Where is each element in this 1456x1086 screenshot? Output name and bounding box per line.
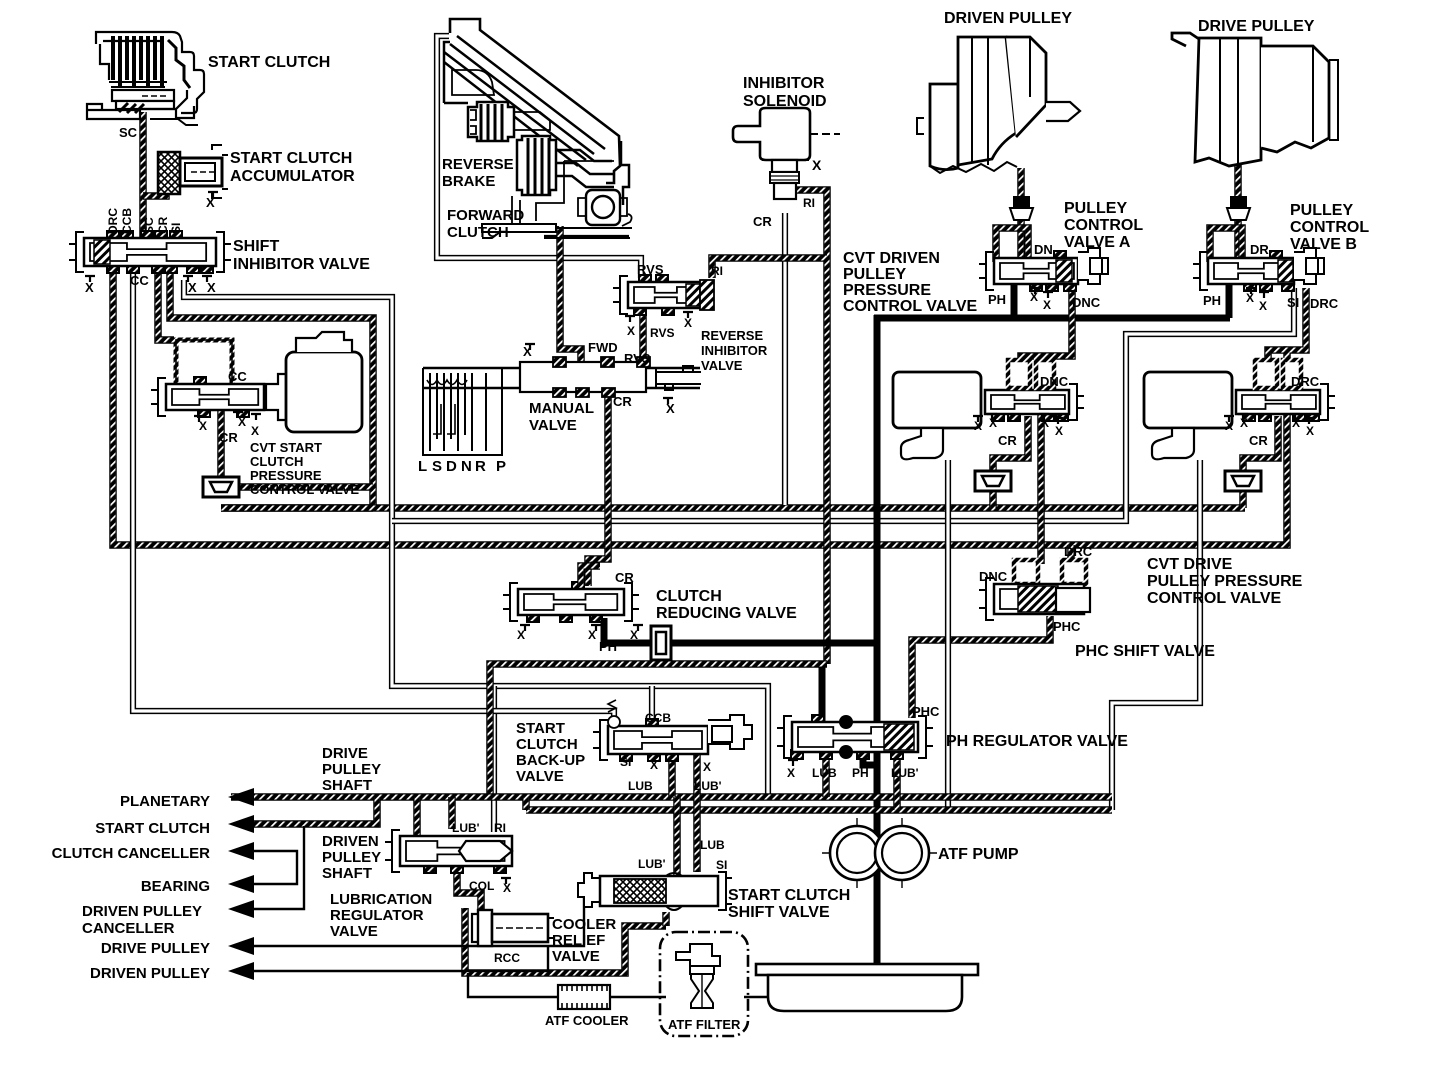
lubrication regulator valve plunger (459, 841, 512, 861)
svg-text:DRC: DRC (1310, 296, 1339, 311)
driven pulley shaft connector (1013, 196, 1030, 208)
start clutch shift valve (578, 872, 732, 910)
arrow DRIVEN PULLEY CANCELLER (228, 900, 254, 918)
svg-text:PHC: PHC (1053, 619, 1081, 634)
svg-text:DNC: DNC (1072, 295, 1101, 310)
wire driven pulley rod (1017, 168, 1025, 258)
pulley control valve B right end (1294, 248, 1324, 284)
drain X (85, 276, 95, 282)
svg-text:CR: CR (753, 214, 772, 229)
svg-text:DRIVEN PULLEY: DRIVEN PULLEY (90, 965, 210, 982)
svg-text:SI: SI (169, 223, 183, 234)
svg-text:X: X (207, 280, 216, 295)
wire PH stub valve A (1011, 284, 1018, 318)
drain X (525, 344, 535, 350)
svg-text:X: X (517, 628, 525, 642)
svg-text:PH: PH (988, 292, 1006, 307)
wire to lubrication regulator (413, 797, 421, 836)
svg-text:PH REGULATOR VALVE: PH REGULATOR VALVE (946, 733, 1128, 750)
arrow BEARING (228, 875, 254, 893)
ATF filter (660, 932, 748, 1036)
CCB port spring (608, 716, 620, 728)
drain X (1053, 418, 1063, 424)
arrow DRIVE PULLEY (228, 937, 254, 955)
svg-text:D: D (446, 458, 457, 475)
svg-text:DNC: DNC (979, 569, 1008, 584)
svg-text:PH: PH (599, 639, 617, 654)
svg-text:RI: RI (711, 264, 723, 278)
svg-text:PH: PH (1203, 293, 1221, 308)
wire LUB2 from back-up valve (693, 754, 701, 810)
svg-text:LUB': LUB' (638, 857, 666, 871)
manual valve (423, 357, 701, 397)
check valve CV3 (driven CR) (975, 471, 1011, 491)
drain X (1290, 414, 1300, 420)
svg-text:X: X (627, 324, 635, 338)
wire PH stub valve B (1226, 284, 1233, 318)
drain X (251, 414, 261, 420)
svg-text:COL: COL (469, 879, 494, 893)
wire start clutch lube (243, 797, 377, 824)
wire COL (457, 872, 481, 912)
wire drive pulley shaft lube trunk (231, 793, 1112, 801)
reverse brake / forward clutch assembly (444, 19, 632, 238)
drain X (987, 414, 997, 420)
CC chamber (176, 340, 232, 386)
PHC shift valve top ports (1014, 560, 1038, 584)
wire SC branch to accumulator (143, 186, 166, 196)
wire RI to lubrication regulator (491, 686, 497, 832)
wire driven pulley line (252, 946, 548, 971)
drain X (683, 312, 693, 318)
wire DNC to PHC shift valve (1037, 358, 1045, 564)
wire drive pulley line (252, 890, 592, 946)
svg-text:RCC: RCC (494, 951, 520, 965)
svg-text:PHC: PHC (912, 704, 940, 719)
svg-text:ATF PUMP: ATF PUMP (938, 846, 1019, 863)
svg-text:DRC: DRC (1291, 374, 1320, 389)
svg-text:X: X (251, 424, 259, 438)
svg-text:RVS: RVS (650, 326, 674, 340)
PH regulator valve (777, 715, 933, 759)
wire CR from CVT start clutch valve (217, 410, 225, 477)
svg-text:N: N (461, 458, 472, 475)
wire FWD (560, 226, 581, 362)
wire lube feed driven valve (945, 460, 951, 810)
svg-text:LUB: LUB (700, 838, 725, 852)
wire PH main horizontal (874, 315, 1230, 322)
drain X (1043, 292, 1053, 298)
drain X (183, 276, 193, 282)
svg-text:X: X (1055, 424, 1063, 438)
svg-text:RI: RI (494, 821, 506, 835)
wire cooler to filter (608, 996, 666, 998)
wire cooler box (465, 908, 666, 973)
svg-text:DNC: DNC (1040, 374, 1069, 389)
PHC shift valve right block (1056, 588, 1090, 612)
wire CR manual to clutch reducing valve (588, 394, 608, 586)
wire LUB2 to lubrication regulator (448, 797, 456, 829)
svg-text:PHC SHIFT VALVE: PHC SHIFT VALVE (1075, 643, 1215, 660)
svg-text:ATF FILTER: ATF FILTER (668, 1017, 741, 1032)
wire RI branch to reverse inhibitor valve (712, 258, 827, 278)
PH regulator valve detail (839, 715, 853, 729)
svg-text:LUB: LUB (628, 779, 653, 793)
shift inhibitor valve (69, 231, 231, 273)
start clutch assembly (87, 32, 204, 125)
drain X (625, 316, 635, 322)
svg-text:DRIVEN PULLEY: DRIVEN PULLEY (944, 10, 1072, 27)
check valve CV4 (drive CR) (1225, 471, 1261, 491)
wire SC start-clutch to shift-inhibitor-valve (139, 112, 147, 240)
arrow PLANETARY (228, 788, 254, 806)
svg-text:RVS: RVS (637, 262, 664, 277)
start clutch back-up valve (593, 719, 708, 761)
wire PHC (912, 616, 1050, 718)
wire CR driven valve (993, 416, 1028, 472)
svg-text:CR: CR (615, 570, 634, 585)
wire CC box top/right (170, 266, 373, 508)
svg-text:LUB': LUB' (694, 779, 722, 793)
svg-text:DN: DN (1034, 242, 1053, 257)
accumulator drain (208, 192, 218, 198)
wire drive pulley rod (1234, 165, 1242, 258)
pulley control valve A (979, 251, 1078, 291)
svg-text:CR: CR (219, 430, 238, 445)
svg-text:LUB: LUB (812, 766, 837, 780)
svg-text:X: X (199, 419, 207, 433)
wire LUB from back-up valve (668, 754, 676, 797)
drain X (520, 625, 530, 631)
wire canceller bracket (252, 851, 297, 884)
svg-text:X: X (812, 157, 822, 173)
svg-text:CC: CC (228, 369, 247, 384)
svg-text:SC: SC (142, 217, 156, 234)
drain X (633, 625, 643, 631)
svg-text:DR: DR (1250, 242, 1269, 257)
drain X (501, 878, 511, 884)
wire LUB2 to shift valve (693, 810, 701, 872)
wire CCB drop (649, 686, 655, 724)
svg-text:SC: SC (119, 125, 138, 140)
svg-text:S: S (432, 458, 442, 475)
wire back-up valve box (490, 664, 827, 797)
svg-text:CCB: CCB (645, 711, 671, 725)
wire PH line (604, 618, 876, 643)
driven pulley (917, 37, 1080, 173)
svg-text:CR: CR (613, 394, 632, 409)
svg-text:DRIVE PULLEY: DRIVE PULLEY (101, 940, 210, 957)
wire CC (158, 266, 174, 340)
svg-text:X: X (206, 195, 215, 210)
CVT start clutch pressure control valve solenoid (266, 332, 362, 432)
svg-text:SI: SI (716, 858, 727, 872)
wire CR from inhibitor solenoid (782, 213, 788, 505)
svg-text:PH: PH (852, 766, 869, 780)
svg-text:X: X (1306, 424, 1314, 438)
ATF cooler (558, 985, 610, 1009)
drain X (1246, 288, 1256, 294)
drain X (233, 412, 243, 418)
svg-text:R: R (475, 458, 486, 475)
arrow START CLUTCH (228, 815, 254, 833)
svg-text:CR: CR (998, 433, 1017, 448)
svg-text:X: X (1043, 298, 1051, 312)
wire SI (392, 288, 1294, 521)
svg-text:FWD: FWD (588, 340, 618, 355)
wire to ATF cooler (468, 973, 560, 997)
svg-text:P: P (496, 458, 506, 475)
arrow DRIVEN PULLEY (228, 962, 254, 980)
wire filter to pan (744, 996, 770, 998)
pulley control valve A right end (1078, 248, 1108, 284)
svg-text:CR: CR (1249, 433, 1268, 448)
wire CR check to trunk (drive) (1239, 488, 1247, 508)
lubrication regulator valve (385, 830, 512, 873)
svg-text:START CLUTCHACCUMULATOR: START CLUTCHACCUMULATOR (230, 150, 355, 185)
wire CR drive valve (1243, 416, 1278, 472)
svg-text:SI: SI (620, 755, 631, 769)
check valve CV1 (CVT start clutch CR) (203, 477, 239, 497)
CCB spring (608, 700, 616, 712)
wire box bottom (221, 504, 373, 512)
svg-text:RVS: RVS (624, 351, 651, 366)
wire DRC branch to valve (1268, 350, 1287, 378)
reverse inhibitor valve RI end (700, 280, 714, 310)
wire valve A feed U (996, 228, 1028, 262)
svg-text:X: X (703, 760, 711, 774)
drain X (1039, 414, 1049, 420)
svg-text:X: X (188, 280, 197, 295)
svg-text:LUB': LUB' (891, 766, 919, 780)
drive pulley (1172, 33, 1338, 166)
CVT driven pulley pressure control valve spool (985, 384, 1084, 421)
drain X (1259, 292, 1269, 298)
reverse inhibitor valve (613, 275, 702, 315)
pulley control valve B (1193, 251, 1294, 291)
svg-text:CR: CR (156, 216, 170, 234)
svg-text:RI: RI (803, 196, 815, 210)
wire check valve bypass (239, 483, 373, 491)
svg-text:START CLUTCH: START CLUTCH (208, 54, 330, 71)
drain X (663, 398, 673, 404)
wire DRC branch to PHC shift valve (1067, 545, 1075, 562)
wire CR check to trunk (989, 488, 997, 508)
drive pulley shaft connector (1230, 196, 1247, 208)
svg-text:ATF COOLER: ATF COOLER (545, 1013, 629, 1028)
ATF pump (822, 818, 937, 888)
oil pan (756, 964, 978, 1011)
wire LUB2 from PH regulator (893, 754, 901, 810)
svg-text:BEARING: BEARING (141, 878, 210, 895)
clutch reducing valve (503, 582, 639, 622)
DRC inlet ports (1255, 360, 1277, 388)
drain X (1030, 288, 1040, 294)
wire LUB to shift valve (673, 797, 681, 878)
svg-text:CCB: CCB (120, 208, 134, 234)
wire RVS loop (437, 36, 641, 278)
check valve CV2 (PH) (651, 626, 671, 660)
manual valve selector gate (L S D N R P) (423, 368, 502, 455)
CVT start clutch pressure control valve spool (151, 377, 264, 417)
svg-text:X: X (588, 628, 596, 642)
CVT drive pulley pressure control valve solenoid (1144, 372, 1232, 459)
svg-text:X: X (1259, 299, 1267, 313)
drain X (194, 416, 204, 422)
cooler relief valve (472, 910, 554, 946)
svg-text:DRC: DRC (1064, 544, 1093, 559)
wire CR trunk (221, 504, 1245, 512)
svg-text:CC: CC (130, 273, 149, 288)
drain X (1238, 414, 1248, 420)
wire RVS (639, 312, 647, 366)
drain X (1304, 418, 1314, 424)
wire CR elbow (581, 566, 600, 586)
wire RI from solenoid (797, 190, 827, 664)
wire valve B feed U (1210, 228, 1242, 262)
drain X (202, 276, 212, 282)
svg-text:PLANETARY: PLANETARY (120, 793, 210, 810)
wire trunk link (522, 797, 530, 810)
drain X (591, 625, 601, 631)
inhibitor solenoid (733, 108, 840, 199)
drain X (788, 760, 798, 766)
svg-text:X: X (630, 628, 638, 642)
wire lube feed drive valve (1112, 460, 1200, 810)
wire CCB (133, 266, 614, 728)
CVT driven pulley pressure control valve solenoid (893, 372, 981, 459)
svg-text:X: X (85, 280, 94, 295)
svg-text:START CLUTCH: START CLUTCH (95, 820, 210, 837)
wire lube trunk 2 (526, 806, 1112, 814)
wire DRC trunk (113, 266, 1306, 545)
PHC shift valve (979, 578, 1084, 620)
start clutch back-up valve second stage (708, 715, 752, 749)
svg-text:X: X (787, 766, 795, 780)
wire clutch hub line (544, 235, 629, 237)
svg-text:INHIBITORSOLENOID: INHIBITORSOLENOID (743, 75, 827, 110)
svg-text:L: L (418, 458, 427, 475)
svg-text:DRIVE PULLEY: DRIVE PULLEY (1198, 18, 1315, 35)
wire shift valve drain (662, 912, 670, 926)
svg-text:SI: SI (1287, 295, 1299, 310)
wire to PH regulator top port (819, 664, 826, 726)
svg-text:X: X (684, 316, 692, 330)
svg-text:X: X (650, 758, 658, 772)
svg-text:CLUTCH CANCELLER: CLUTCH CANCELLER (52, 845, 210, 862)
svg-text:DRC: DRC (106, 208, 120, 234)
start clutch accumulator (158, 145, 228, 198)
DNC inlet ports (1008, 360, 1030, 388)
drain X (1224, 416, 1234, 422)
svg-text:LUB': LUB' (452, 821, 480, 835)
CVT drive pulley pressure control valve spool (1236, 384, 1335, 421)
svg-text:X: X (238, 415, 246, 429)
wire DNC from valve A (1021, 288, 1072, 378)
wire PH main vertical (874, 315, 881, 967)
wire LUB from PH regulator (822, 754, 830, 797)
wire PH from regulator to pump line (863, 754, 877, 765)
arrow CLUTCH CANCELLER (228, 842, 254, 860)
wire driven pulley canceller (252, 826, 304, 909)
wire X drain thin line (184, 280, 768, 795)
drain X (973, 416, 983, 422)
